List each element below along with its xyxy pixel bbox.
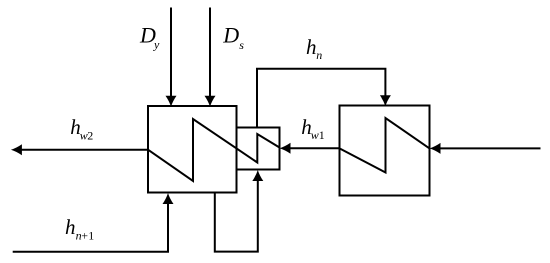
wire D_s steam feed arrow into E1 top [205,8,216,107]
svg-text:h: h [65,215,76,239]
label h_n+1 [65,215,94,243]
wire recirculation U path from E1 bottom into flash box bottom [215,170,263,252]
flash box E1b (small middle box) [237,128,280,170]
coil zigzag inside E2 [340,118,430,173]
label h_w2 [70,115,93,143]
wire h_n vapor line from flash box top to E2 top [257,69,391,128]
svg-text:1: 1 [88,228,94,242]
wire h_w2 outlet arrow to the left [11,144,148,155]
svg-text:1: 1 [319,128,325,142]
wire feed arrow from right edge into E2 [430,143,541,154]
label D_s [222,23,244,52]
svg-text:s: s [239,38,244,52]
svg-text:w: w [311,128,319,142]
svg-text:n: n [316,48,322,62]
svg-text:h: h [306,35,317,59]
svg-text:y: y [153,37,160,51]
coil zigzag inside E1 and flash box [148,119,280,181]
wire D_y vapor feed arrow into E1 top [166,8,177,107]
label D_y [139,23,160,52]
svg-text:D: D [222,23,239,48]
heat exchanger E1 (large left box) [148,106,237,193]
label h_w1 [301,115,324,142]
wire h_w1 line from E2 into flash box [280,143,340,154]
wire h_n+1 feed line into E1 bottom [13,193,174,252]
label h_n [306,35,322,62]
heat exchanger E2 (right box) [340,106,430,196]
svg-text:2: 2 [87,129,93,143]
